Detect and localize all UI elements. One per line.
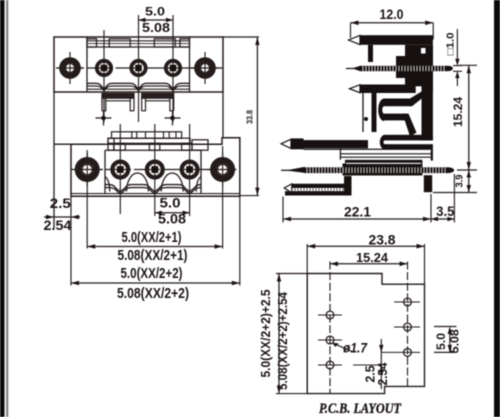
svg-text:P.C.B. LAYOUT: P.C.B. LAYOUT	[319, 401, 402, 417]
svg-text:5.08(XX/2+1): 5.08(XX/2+1)	[118, 247, 188, 264]
svg-text:5.0(XX/2+2): 5.0(XX/2+2)	[121, 265, 183, 282]
svg-text:15.24: 15.24	[356, 250, 389, 265]
svg-text:33.8: 33.8	[245, 110, 254, 124]
svg-text:12.0: 12.0	[380, 6, 404, 22]
svg-text:5.0: 5.0	[434, 333, 448, 350]
svg-text:5.08: 5.08	[448, 329, 462, 353]
svg-text:5.0(XX/2+1): 5.0(XX/2+1)	[122, 229, 182, 246]
svg-text:22.1: 22.1	[344, 204, 371, 220]
svg-text:ø1.7: ø1.7	[343, 340, 368, 356]
svg-text:5.08(XX/2+2): 5.08(XX/2+2)	[117, 285, 189, 302]
svg-text:3.5: 3.5	[436, 203, 454, 219]
svg-text:5.0(XX/2+2)+2.5: 5.0(XX/2+2)+2.5	[259, 289, 273, 377]
svg-text:2.5: 2.5	[50, 195, 71, 211]
svg-text:5.0: 5.0	[145, 5, 165, 19]
svg-text:5.08: 5.08	[142, 20, 170, 35]
svg-text:5.0: 5.0	[160, 195, 181, 211]
svg-text:5.08(XX/2+2)+2.54: 5.08(XX/2+2)+2.54	[276, 292, 290, 390]
svg-text:15.24: 15.24	[451, 97, 465, 127]
svg-text:2.54: 2.54	[376, 362, 390, 385]
svg-text:□1.0: □1.0	[445, 32, 456, 55]
svg-text:2.54: 2.54	[44, 217, 72, 233]
svg-text:5.08: 5.08	[158, 212, 187, 227]
svg-text:3.9: 3.9	[455, 174, 466, 187]
svg-text:23.8: 23.8	[369, 232, 396, 247]
